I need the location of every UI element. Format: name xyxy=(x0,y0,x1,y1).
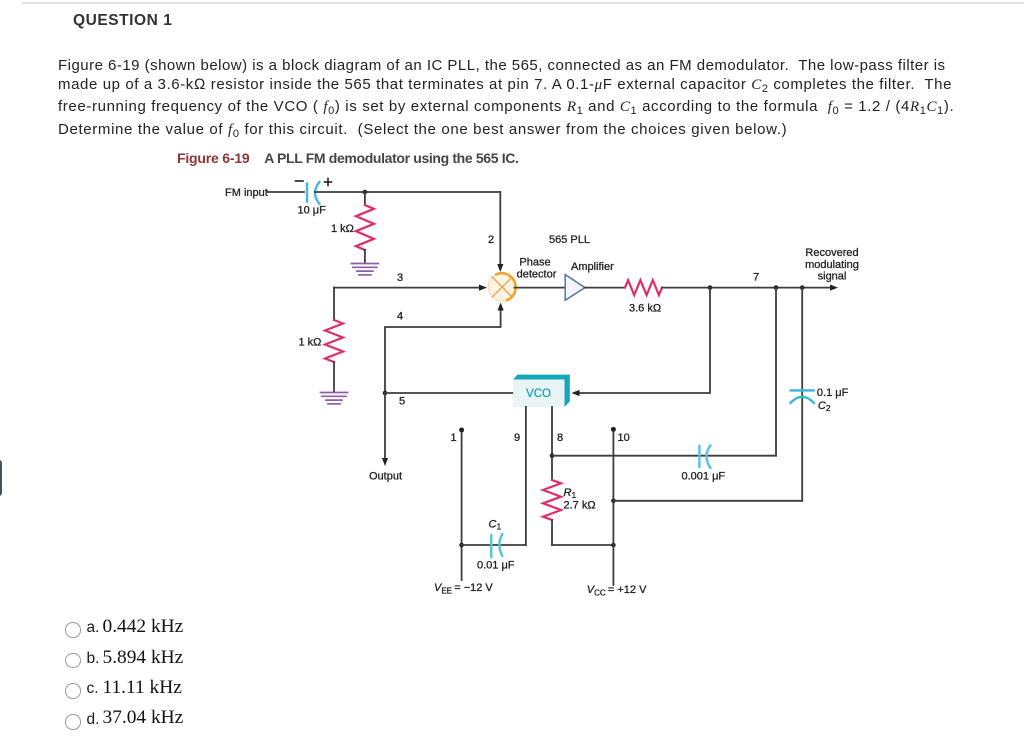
wire cap to pin 2 corner xyxy=(315,191,500,193)
junction pin 5 xyxy=(383,391,388,396)
svg-text:VEE = −12 V: VEE = −12 V xyxy=(434,582,493,596)
wire pin 2 vertical xyxy=(499,192,501,265)
capacitor C1 0.01uF xyxy=(477,519,515,572)
junction C1 / pin1 xyxy=(459,543,464,548)
svg-text:3.6 kΩ: 3.6 kΩ xyxy=(629,303,661,315)
svg-text:detector: detector xyxy=(517,269,557,281)
VCO pin 8 wire xyxy=(551,407,553,480)
svg-text:1 kΩ: 1 kΩ xyxy=(331,223,354,235)
svg-text:VCC = +12 V: VCC = +12 V xyxy=(587,584,647,598)
resistor R1 2.7k xyxy=(543,480,596,545)
wire R1 bottom to pin 10 xyxy=(552,544,613,546)
resistor 3.6k xyxy=(625,280,662,314)
svg-text:8: 8 xyxy=(557,432,563,444)
svg-text:0.1 μF: 0.1 μF xyxy=(817,387,849,399)
pin 1 wire xyxy=(459,428,464,581)
feedback wire to VCO input xyxy=(572,288,711,397)
ground upper xyxy=(351,264,378,275)
VCO pin 9 wire xyxy=(525,407,527,545)
capacitor 0.001uF xyxy=(682,446,726,483)
svg-text:0.001 μF: 0.001 μF xyxy=(682,471,726,483)
svg-text:4: 4 xyxy=(397,311,403,323)
pin 10 wire xyxy=(611,427,616,585)
svg-text:Phase: Phase xyxy=(519,257,550,269)
wire 0.001uF branch xyxy=(552,455,776,457)
wire phase detector to amplifier xyxy=(514,287,565,289)
svg-text:9: 9 xyxy=(514,432,520,444)
amplifier xyxy=(565,261,614,300)
svg-text:Output: Output xyxy=(369,471,402,483)
svg-text:10 μF: 10 μF xyxy=(298,205,327,217)
phase detector mixer xyxy=(488,273,516,301)
wire 5 to VCO xyxy=(385,392,513,394)
svg-text:2: 2 xyxy=(488,234,494,246)
wire C1 xyxy=(462,544,526,546)
recovered modulating signal label xyxy=(805,247,859,282)
svg-text:C1: C1 xyxy=(489,519,502,532)
svg-text:10: 10 xyxy=(618,432,630,444)
svg-text:2.7 kΩ: 2.7 kΩ xyxy=(564,500,596,512)
wire 3 with arrow xyxy=(334,272,487,320)
svg-text:0.01 μF: 0.01 μF xyxy=(477,560,515,572)
junction pin8 / 0.001uF xyxy=(550,453,555,458)
junction C2 bottom rail xyxy=(611,499,616,504)
svg-text:5: 5 xyxy=(399,396,405,408)
wire C2 bottom to pin10 xyxy=(613,500,802,502)
svg-text:1: 1 xyxy=(451,432,457,444)
svg-text:modulating: modulating xyxy=(805,259,859,271)
junction node input/1k xyxy=(363,190,368,195)
svg-text:signal: signal xyxy=(818,270,847,282)
junction at pin10 bottom rail xyxy=(611,543,616,548)
wire FM input to coupling cap xyxy=(267,191,304,193)
ground lower xyxy=(321,393,348,404)
svg-text:C2: C2 xyxy=(818,400,831,413)
svg-text:VCO: VCO xyxy=(526,388,551,400)
output wire xyxy=(369,393,402,483)
svg-text:565 PLL: 565 PLL xyxy=(549,234,590,246)
resistor 1k upper xyxy=(331,205,374,263)
output wire pin 7 xyxy=(662,272,838,291)
VCO box xyxy=(513,375,570,407)
wire 4 xyxy=(385,303,504,394)
wire junction to resistor xyxy=(364,192,366,205)
svg-text:7: 7 xyxy=(753,272,759,284)
svg-text:Recovered: Recovered xyxy=(805,247,858,259)
capacitor C2 0.1uF xyxy=(791,387,849,413)
svg-text:Amplifier: Amplifier xyxy=(571,261,614,273)
junction nodes on pin 7 wire xyxy=(708,285,713,290)
svg-text:FM input: FM input xyxy=(225,187,268,199)
wire amplifier to 3.6k xyxy=(585,287,625,289)
capacitor 10uF input coupling xyxy=(296,179,332,217)
svg-text:R1: R1 xyxy=(564,487,577,500)
svg-text:3: 3 xyxy=(397,272,403,284)
resistor 1k lower xyxy=(299,320,344,392)
svg-text:1 kΩ: 1 kΩ xyxy=(299,337,322,349)
